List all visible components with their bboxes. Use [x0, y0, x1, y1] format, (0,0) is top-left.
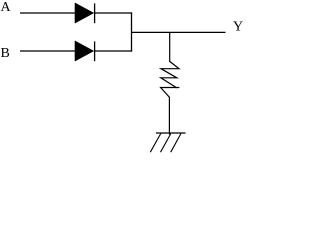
- wire A to D1 anode: [20, 12, 76, 14]
- wire output node to Y: [132, 31, 226, 33]
- wire D1 cathode to bus: [94, 12, 132, 14]
- resistor R1: [176, 87, 180, 89]
- wire D2 cathode to bus: [94, 50, 132, 52]
- svg-text:B: B: [1, 46, 10, 61]
- diode D1: [75, 3, 95, 23]
- svg-text:A: A: [1, 0, 12, 15]
- ground: [150, 133, 185, 152]
- wire bus joining cathodes: [131, 12, 133, 51]
- svg-text:Y: Y: [233, 20, 243, 35]
- wire B to D2 anode: [20, 50, 76, 52]
- diode D2: [75, 41, 95, 61]
